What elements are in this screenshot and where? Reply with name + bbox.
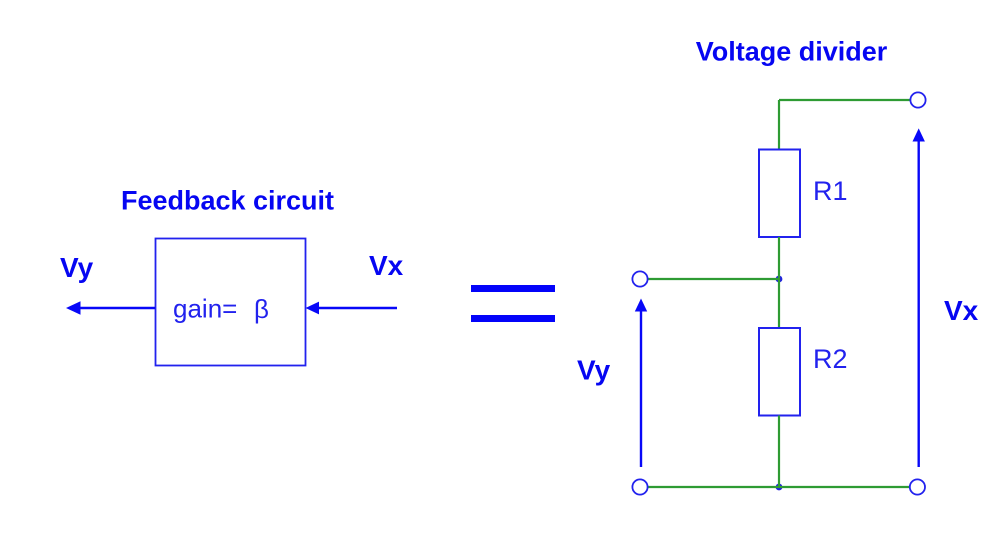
equivalence sign = (471, 285, 555, 322)
svg-text:Vx: Vx (944, 295, 979, 326)
junction dot: bottom node (776, 484, 783, 491)
terminal node: bottom left (Vy-) (632, 479, 647, 494)
junction dot: mid node (776, 276, 783, 283)
terminal node: bottom right (Vx-) (910, 479, 925, 494)
resistor R1 (759, 150, 800, 238)
svg-text:R2: R2 (813, 344, 848, 374)
wire: Vx input arrow (left figure) (306, 302, 398, 315)
svg-text:gain=: gain= (173, 294, 237, 324)
terminal node: mid left (Vy+) (632, 271, 647, 286)
svg-text:Vx: Vx (369, 250, 404, 281)
svg-text:Vy: Vy (577, 355, 611, 386)
wire: bottom rail (648, 486, 909, 488)
svg-text:Feedback circuit: Feedback circuit (121, 186, 334, 216)
svg-text:Voltage divider: Voltage divider (696, 37, 888, 67)
arrow: Vy measurement (right figure) (635, 299, 647, 468)
wire: Vy output arrow (left figure) (66, 301, 155, 314)
terminal node: top right (Vx+) (910, 92, 925, 107)
wire: R2 bottom to bottom rail (778, 416, 780, 488)
wire: R1 bottom to R2 top (through mid node) (778, 237, 780, 328)
svg-text:Vy: Vy (60, 252, 94, 283)
arrow: Vx measurement (right figure) (913, 128, 925, 467)
feedback block U1 (156, 239, 306, 366)
wire: mid horizontal to Vy terminal (648, 278, 779, 280)
svg-text:R1: R1 (813, 176, 848, 206)
svg-text:β: β (254, 294, 269, 324)
resistor R2 (759, 328, 800, 416)
wire: top horizontal (node Vx top) (779, 99, 910, 101)
wire: top vertical into R1 (778, 100, 780, 150)
